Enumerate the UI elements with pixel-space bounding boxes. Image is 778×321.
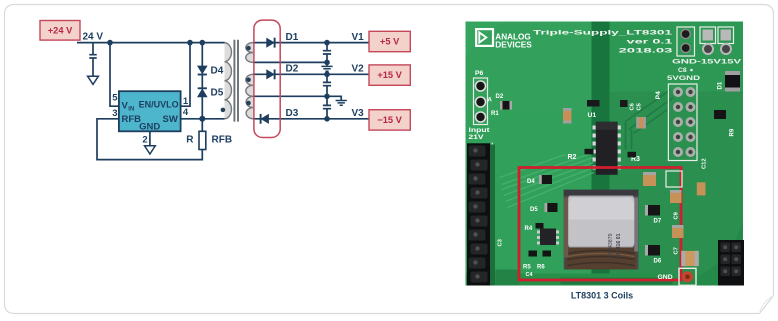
wire EN/UVLO pin 1 xyxy=(181,43,190,107)
svg-text:R6: R6 xyxy=(537,265,545,271)
junction C2/C3/gnd xyxy=(324,94,330,100)
svg-text:24 V: 24 V xyxy=(83,32,104,43)
svg-text:Triple-Supply_LT8301: Triple-Supply_LT8301 xyxy=(533,30,673,37)
transformer T1 (photo) xyxy=(564,190,639,270)
top right pad group B xyxy=(700,27,716,44)
capacitors C9 C7 (pcb) xyxy=(670,190,682,203)
ADI logo xyxy=(476,29,493,46)
svg-text:IN: IN xyxy=(128,107,134,113)
diode D7 smd (pcb) xyxy=(645,205,660,216)
diode D5 (zener, pointing up) xyxy=(198,89,207,97)
capacitor CIN stub xyxy=(92,43,94,54)
svg-text:U1: U1 xyxy=(588,112,597,119)
svg-text:V2: V2 xyxy=(352,64,365,75)
capacitor C6 smd xyxy=(636,117,646,129)
PCB board base xyxy=(466,22,744,286)
wire V3 output xyxy=(253,118,369,120)
capacitor C2 stub xyxy=(326,74,328,96)
wire winding1 return xyxy=(253,61,327,63)
wire top rail 24V xyxy=(77,42,225,44)
svg-text:D5: D5 xyxy=(211,88,224,99)
junction rail/D4 xyxy=(200,40,206,46)
capacitor C10 big (pcb) xyxy=(681,251,698,266)
svg-text:GND-15V15V: GND-15V15V xyxy=(672,58,742,65)
transformer core xyxy=(234,40,238,122)
junction V2/C2 xyxy=(324,72,330,78)
svg-text:NP3816 01: NP3816 01 xyxy=(616,233,622,259)
svg-text:D2: D2 xyxy=(286,64,299,75)
svg-text:R2: R2 xyxy=(568,154,577,161)
wire GND pin 2 xyxy=(149,131,151,146)
svg-text:P4: P4 xyxy=(655,91,662,100)
svg-text:C9: C9 xyxy=(674,211,680,219)
capacitor C2 xyxy=(323,82,331,85)
earth ground 1 xyxy=(321,62,332,71)
wire V1 output xyxy=(253,42,369,44)
svg-text:4: 4 xyxy=(183,107,189,118)
junction V3/C3 xyxy=(324,116,330,122)
node -15V label box xyxy=(369,110,410,130)
svg-text:R5: R5 xyxy=(523,265,531,271)
wire to earth ground 2 xyxy=(327,96,341,100)
resistors R5 R6 (pcb) xyxy=(529,251,538,257)
transformer primary phase dot xyxy=(221,108,226,113)
svg-text:C8: C8 xyxy=(678,67,687,74)
svg-text:1: 1 xyxy=(183,96,189,107)
svg-text:C7: C7 xyxy=(674,247,680,254)
resistor R9 (pcb) xyxy=(714,110,726,119)
transformer T1 primary winding xyxy=(225,43,232,119)
capacitor C3 xyxy=(323,105,331,108)
svg-text:DEVICES: DEVICES xyxy=(495,40,532,50)
wire D5 to SW node xyxy=(201,97,203,119)
svg-text:C6: C6 xyxy=(630,102,636,110)
wire V2 output xyxy=(253,73,369,75)
capacitor CIN xyxy=(89,55,96,58)
svg-text:750343879: 750343879 xyxy=(608,233,614,259)
svg-text:D2: D2 xyxy=(496,94,504,100)
wire D4 top xyxy=(201,43,203,66)
op-amp U1 LT8301 body xyxy=(119,91,181,131)
svg-text:LT8301 3 Coils: LT8301 3 Coils xyxy=(571,291,633,301)
ic U2 small (pcb) xyxy=(540,229,556,246)
junction C1/gnd xyxy=(324,60,330,66)
svg-text:R9: R9 xyxy=(730,128,736,136)
svg-text:R1: R1 xyxy=(491,111,499,117)
svg-text:V1: V1 xyxy=(352,32,365,43)
svg-text:3: 3 xyxy=(112,108,117,119)
svg-text:GND: GND xyxy=(139,122,160,133)
dark traces top right xyxy=(626,90,674,150)
wire resistor bottom to RFB pin 3 xyxy=(97,119,202,160)
diode D2 xyxy=(267,70,274,79)
capacitor C2 smd xyxy=(563,108,572,124)
svg-text:+15 V: +15 V xyxy=(377,70,402,80)
svg-text:D1: D1 xyxy=(286,32,299,43)
svg-text:C5: C5 xyxy=(637,102,643,110)
diode D4 xyxy=(198,66,207,74)
svg-text:+24 V: +24 V xyxy=(48,26,73,36)
wire SW to RFB resistor xyxy=(201,119,203,132)
transformer secondary winding 3 xyxy=(246,96,253,119)
red group box around D1-D3 xyxy=(254,20,280,137)
capacitor C1 stub xyxy=(326,43,328,63)
diode D1 xyxy=(267,38,274,47)
svg-text:RFB: RFB xyxy=(212,135,233,146)
dark trace band below red rect xyxy=(561,278,673,285)
svg-text:D3: D3 xyxy=(286,108,299,119)
diode D3 (reversed) xyxy=(261,115,268,124)
capacitor C1 xyxy=(323,51,331,54)
svg-text:GND: GND xyxy=(658,274,673,281)
svg-text:+5 V: +5 V xyxy=(380,37,400,47)
svg-text:−15 V: −15 V xyxy=(377,115,402,125)
svg-text:D7: D7 xyxy=(654,219,662,225)
resistor RFB xyxy=(199,131,206,149)
transformer secondary winding 2 xyxy=(246,74,253,96)
svg-text:Input: Input xyxy=(469,127,491,134)
junction rail/EN xyxy=(187,40,193,46)
red highlight rectangle on PCB xyxy=(519,168,681,281)
ground input (open triangle) xyxy=(88,76,99,84)
svg-text:R4: R4 xyxy=(525,226,533,232)
svg-text:D4: D4 xyxy=(527,179,535,185)
svg-text:D5: D5 xyxy=(530,207,538,213)
capacitor C11 (pcb) xyxy=(697,182,706,195)
svg-text:D4: D4 xyxy=(211,66,224,77)
junction V1/C1 xyxy=(324,40,330,46)
wire D4-D5 xyxy=(201,75,203,88)
svg-text:D6: D6 xyxy=(654,259,662,265)
svg-text:2: 2 xyxy=(142,134,147,145)
top right pad group A xyxy=(677,27,695,56)
junction SW node xyxy=(199,116,205,122)
svg-text:V3: V3 xyxy=(352,108,365,119)
top right pad group C xyxy=(718,27,734,44)
capacitor C3 stub xyxy=(326,96,328,119)
svg-text:EN/UVLO: EN/UVLO xyxy=(139,100,179,111)
board shadow stripe xyxy=(592,22,611,286)
capacitor J1 pad (pcb) xyxy=(666,171,682,187)
junction rail/VIN xyxy=(107,40,113,46)
transformer secondary winding 1 xyxy=(246,43,253,63)
wire SW xyxy=(181,118,225,120)
svg-text:ver 0.1: ver 0.1 xyxy=(627,39,674,46)
svg-text:A: A xyxy=(488,98,493,104)
node +15V label box xyxy=(369,65,410,85)
ground IC pin2 (open triangle) xyxy=(145,146,156,154)
node +5V label box xyxy=(369,31,410,51)
node +24V supply label box xyxy=(40,21,80,41)
wire CIN to ground xyxy=(92,59,94,76)
diode D6 smd (pcb) xyxy=(645,245,660,256)
svg-text:C12: C12 xyxy=(702,158,708,169)
left pin header J2 xyxy=(491,143,493,286)
svg-text:P6: P6 xyxy=(475,70,484,77)
header J3 bottom right (pcb) xyxy=(718,240,744,286)
svg-text:2018.03: 2018.03 xyxy=(619,48,674,55)
svg-text:21V: 21V xyxy=(469,134,485,141)
svg-text:R: R xyxy=(186,135,194,146)
earth ground 2 xyxy=(336,101,347,106)
svg-text:D1: D1 xyxy=(718,81,724,89)
svg-text:C4: C4 xyxy=(526,272,534,278)
svg-text:5VGND: 5VGND xyxy=(667,75,700,82)
svg-text:C3: C3 xyxy=(498,238,504,246)
wire winding2/3 tap xyxy=(253,95,327,97)
svg-text:SW: SW xyxy=(162,114,177,125)
trace bundle from U1 to left header xyxy=(500,153,594,208)
wire VIN pin 5 xyxy=(110,43,119,107)
svg-text:5: 5 xyxy=(112,92,118,103)
